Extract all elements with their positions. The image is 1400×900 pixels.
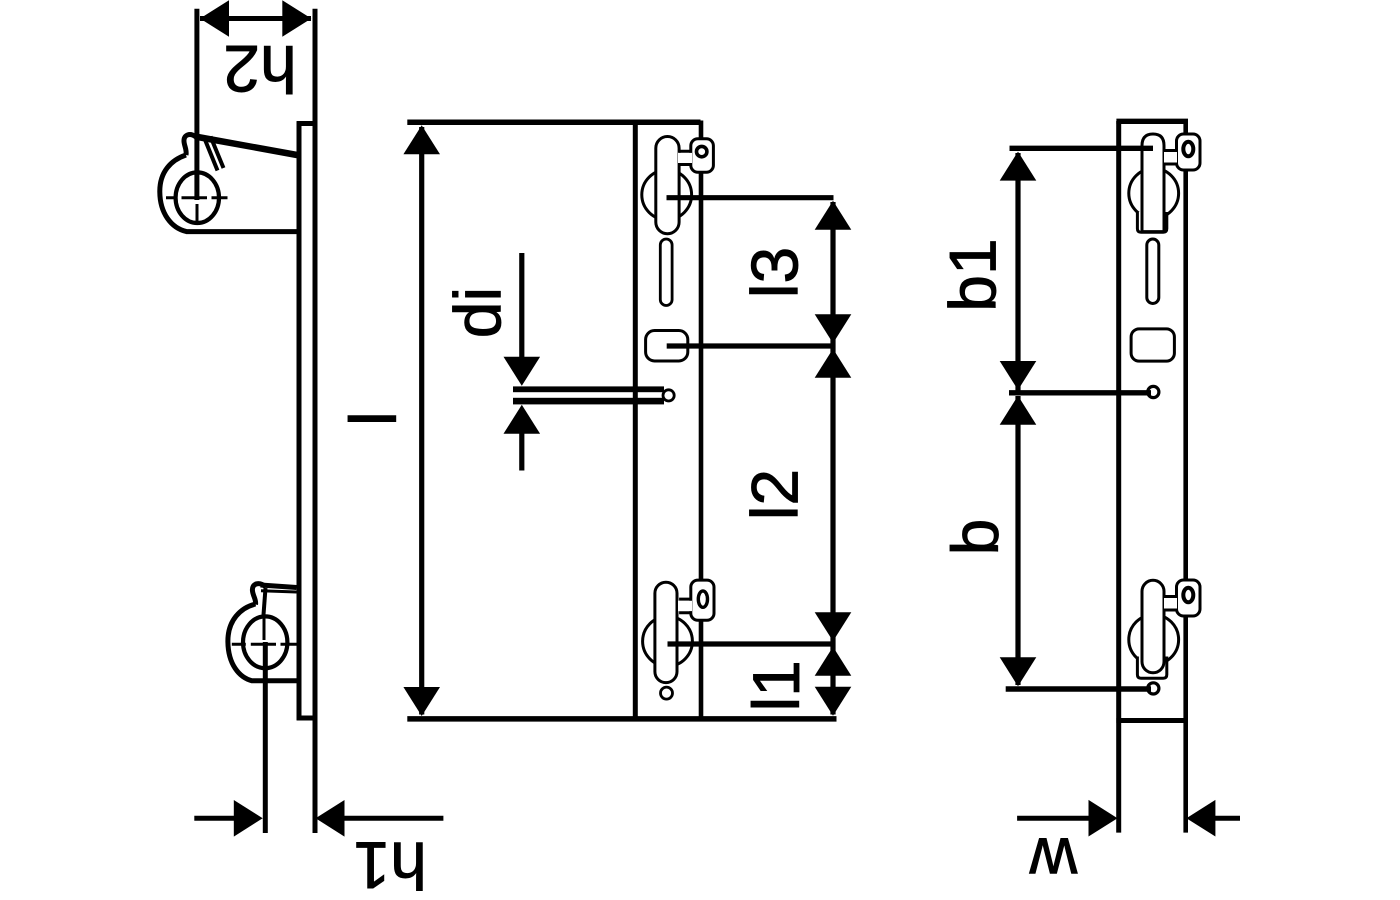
rear washer bottom: [1137, 657, 1166, 679]
rear washer top: [1137, 212, 1166, 232]
rear bolt slot bottom: [1142, 580, 1164, 673]
dimension w left line: [1017, 816, 1089, 821]
tab top neck: [678, 153, 692, 163]
svg-text:b1: b1: [936, 238, 1010, 311]
svg-text:h2: h2: [223, 32, 296, 106]
tab top hole: [697, 146, 707, 156]
wire rail right edge: [699, 121, 704, 720]
wire b bottom extension: [1006, 686, 1151, 691]
wire h2 extension / pipe axis line: [194, 9, 199, 200]
arrow h1 left (points right): [234, 800, 263, 837]
wire pipe axis extension down (h1): [263, 642, 268, 833]
tab bottom: [691, 580, 714, 620]
wire front bottom edge: [407, 716, 836, 722]
clamp bottom bore circle: [243, 616, 287, 668]
bracket top hook curl: [184, 135, 196, 155]
dimension h1 left line: [194, 816, 234, 821]
svg-text:l2: l2: [738, 469, 812, 520]
rear nut shape: [1131, 329, 1174, 361]
arrow b1 bottom (points down): [1000, 361, 1037, 390]
tab bottom neck: [678, 601, 692, 612]
arrow l2 top (points up): [815, 349, 852, 378]
rear tab top: [1177, 134, 1201, 170]
tab bottom hole: [698, 591, 707, 607]
nut shape: [646, 331, 688, 362]
dimension di upper leader: [519, 253, 524, 358]
clamp top crosshair: [166, 196, 228, 199]
rear small slot: [1147, 239, 1159, 304]
bracket bottom arm: [261, 585, 297, 588]
wire plate top cap: [297, 121, 318, 126]
arrow w right (points left): [1186, 800, 1215, 837]
small slot middle: [660, 239, 672, 306]
svg-text:l1: l1: [739, 660, 813, 711]
bolt slot top: [656, 137, 679, 234]
wire plate bottom cap: [297, 716, 318, 721]
arrow l bottom (points down): [403, 687, 440, 716]
clamp knob bottom circle: [643, 616, 693, 666]
svg-text:b: b: [938, 519, 1012, 556]
rear tab top hole: [1183, 142, 1193, 157]
clamp top center line below: [196, 204, 199, 222]
arrow b1 top (points up): [1000, 152, 1037, 181]
arrow di upper (points down): [504, 357, 541, 386]
arrow l1 top (points up): [815, 647, 852, 676]
dimension chain l3/l2/l1 line: [830, 202, 835, 715]
wire rear right edge: [1183, 121, 1188, 833]
tab top: [691, 139, 714, 172]
arrow l2 bottom (points down): [815, 612, 852, 641]
dimension w right line: [1215, 816, 1240, 821]
arrow b top (points up): [1000, 396, 1037, 425]
bracket top arm: [195, 137, 297, 156]
wire rear top cap: [1116, 119, 1188, 124]
dimension b1 line: [1015, 153, 1020, 391]
arrow l top (points up): [403, 125, 440, 154]
small circle bottom front: [661, 687, 673, 699]
pipe top wall: [513, 386, 664, 392]
arrow w left (points right): [1089, 800, 1118, 837]
svg-text:w: w: [1029, 824, 1078, 898]
arrow l1 bottom (points down): [815, 687, 852, 716]
wire l1 extension line: [668, 641, 834, 646]
arrow b bottom (points down): [1000, 657, 1037, 686]
rear tab bottom neck: [1164, 598, 1177, 609]
svg-text:l: l: [336, 411, 410, 426]
rear small circle bottom: [1148, 683, 1159, 694]
dimension l line: [419, 127, 424, 715]
wire rear left edge: [1116, 121, 1121, 833]
arrow h2 right: [282, 0, 311, 37]
pipe bottom wall: [513, 398, 664, 405]
wire b1/b extension: [1009, 390, 1151, 395]
rear clamp knob bottom circle: [1129, 615, 1179, 665]
arrow di lower (points up): [504, 405, 541, 434]
bolt slot bottom: [655, 582, 677, 682]
bracket bottom hook curl: [252, 584, 266, 605]
wire front top edge: [407, 120, 700, 126]
wire l3 extension line: [667, 195, 834, 200]
rear small circle middle: [1148, 386, 1159, 397]
dimension di lower leader: [519, 433, 524, 471]
wire plate left edge: [297, 122, 302, 721]
clamp bottom crosshair: [232, 643, 297, 646]
clamp knob top circle: [642, 170, 692, 220]
wire b1 top extension: [1010, 146, 1154, 151]
wire rear bottom cap: [1116, 718, 1188, 723]
wire plate right edge (extension line for h2/h1): [313, 9, 318, 833]
pipe end circle: [663, 390, 674, 401]
arrow l3 bottom (points down): [815, 314, 852, 343]
rear clamp knob top circle: [1129, 168, 1179, 218]
bracket bottom arm lower line: [261, 591, 297, 592]
clamp bottom body: [228, 604, 297, 681]
clamp top bore circle: [176, 172, 219, 223]
arrow h1 right (points left): [316, 800, 345, 837]
arrow l3 top (points up): [815, 201, 852, 230]
rear bolt slot top: [1142, 134, 1164, 232]
dimension h2 line: [200, 16, 311, 21]
wire l2 extension line: [667, 343, 834, 348]
bracket bottom strut: [263, 588, 265, 618]
wire rail left edge: [633, 122, 638, 719]
dimension h1 right line: [344, 816, 443, 821]
arrow h2 left: [200, 0, 229, 37]
bracket top strut: [205, 137, 224, 171]
rear tab bottom: [1177, 580, 1201, 616]
svg-text:l3: l3: [738, 247, 812, 298]
svg-text:di: di: [441, 287, 515, 338]
svg-text:h1: h1: [353, 829, 426, 900]
dimension b line: [1015, 396, 1020, 685]
rear tab top neck: [1164, 152, 1177, 163]
clamp bottom center line above: [263, 618, 266, 640]
rear tab bottom hole: [1183, 588, 1193, 603]
clamp top body: [160, 155, 297, 232]
